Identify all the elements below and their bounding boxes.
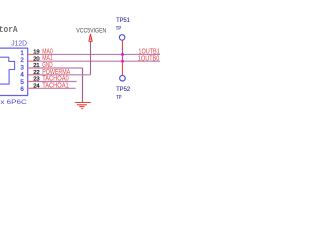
svg-text:22: 22 <box>33 70 39 76</box>
svg-text:x 6P6C: x 6P6C <box>0 99 27 106</box>
wire MA0 <box>35 53 160 55</box>
svg-text:21: 21 <box>33 63 39 69</box>
svg-text:TP52: TP52 <box>116 86 131 93</box>
svg-text:6: 6 <box>20 86 24 93</box>
wire MA1 <box>35 60 160 62</box>
testpoint TP52 circle <box>120 75 126 81</box>
testpoint TP52 pin <box>121 61 123 75</box>
pin stub 19 <box>28 53 35 55</box>
svg-text:TP: TP <box>116 95 122 101</box>
wire GND <box>35 67 83 69</box>
wire GND drop <box>82 68 84 102</box>
wire VCC riser <box>90 41 92 75</box>
pin stub 20 <box>28 60 35 62</box>
svg-text:VCC5VIGEN: VCC5VIGEN <box>76 27 106 34</box>
svg-text:TACHOA1: TACHOA1 <box>42 82 69 89</box>
svg-text:3: 3 <box>20 64 24 71</box>
svg-text:4: 4 <box>20 72 24 79</box>
svg-text:TP: TP <box>116 26 122 32</box>
wire TACHOA1 <box>35 87 76 89</box>
svg-text:TP51: TP51 <box>116 17 130 24</box>
wire TACHOA0 <box>35 81 77 83</box>
svg-text:19: 19 <box>33 49 39 55</box>
svg-text:23: 23 <box>33 77 39 83</box>
svg-text:1: 1 <box>20 50 24 57</box>
svg-text:torA: torA <box>0 24 18 35</box>
testpoint TP51 circle <box>119 35 125 41</box>
svg-text:24: 24 <box>33 83 40 89</box>
ground symbol <box>75 103 91 107</box>
pin stub 24 <box>28 87 35 89</box>
pin stub 22 <box>28 74 35 76</box>
connector jack profile <box>0 57 15 84</box>
testpoint TP51 pin <box>121 40 123 50</box>
connector J12D box <box>0 48 28 95</box>
junction row2 <box>121 60 124 63</box>
pin stub 23 <box>28 81 35 83</box>
svg-text:1OUTB0: 1OUTB0 <box>138 55 159 62</box>
power symbol VCC arrow <box>89 34 92 41</box>
svg-text:2: 2 <box>20 57 24 64</box>
wire POWERMA <box>35 74 91 76</box>
svg-text:J12D: J12D <box>11 39 27 48</box>
svg-text:5: 5 <box>20 79 24 86</box>
pin stub 21 <box>28 67 35 69</box>
svg-text:20: 20 <box>33 56 39 62</box>
wire TP51 junction drop <box>121 51 123 62</box>
junction row1 <box>121 53 124 56</box>
